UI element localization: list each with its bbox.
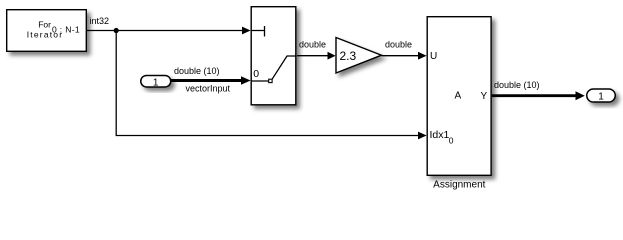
svg-text:int32: int32 (90, 16, 110, 26)
block: Inport 1 (vectorInput) (141, 75, 171, 88)
block: Gain 2.3 (336, 38, 382, 74)
svg-text:Idx1: Idx1 (430, 129, 450, 141)
wire: junction down and right to Assignment Idx1 input (116, 31, 426, 140)
svg-text:double (10): double (10) (174, 66, 220, 76)
svg-text:Assignment: Assignment (433, 180, 485, 191)
block: Switch (251, 7, 296, 105)
svg-text:2.3: 2.3 (339, 49, 356, 63)
switch lever to output (272, 56, 297, 79)
svg-text:double (10): double (10) (494, 80, 540, 90)
block: For Iterator U1 (7, 10, 87, 52)
switch criteria marker (input 1) (252, 26, 265, 37)
svg-text:A: A (455, 91, 462, 102)
svg-text:double: double (385, 40, 412, 50)
node: junction on int32 wire (114, 28, 119, 33)
wire: For Iterator output to Switch input 1 (int32 signal) (87, 27, 251, 35)
svg-text:double: double (299, 40, 326, 50)
svg-text:U: U (430, 51, 437, 62)
wire: Gain output to Assignment U input (double signal) (382, 52, 427, 60)
svg-text:Y: Y (481, 91, 488, 102)
switch input 2 stub and contact square (252, 80, 269, 82)
svg-text:0: 0 (449, 136, 454, 146)
block: Outport 1 (587, 89, 616, 103)
wire: Assignment Y output to Outport 1 (wide double(10) signal) (492, 91, 585, 100)
svg-text:Iterator: Iterator (27, 29, 64, 39)
svg-text:1: 1 (598, 92, 604, 103)
wire: Switch output to Gain input (double signal) (297, 52, 336, 60)
svg-text:0: 0 (253, 68, 259, 80)
svg-text:For: For (38, 19, 51, 29)
wire: vectorInput port 1 to Switch input 2 (wide double(10) signal) (171, 76, 251, 85)
svg-text:1: 1 (153, 77, 159, 88)
svg-text:vectorInput: vectorInput (186, 84, 231, 94)
block: Assignment (427, 17, 491, 176)
